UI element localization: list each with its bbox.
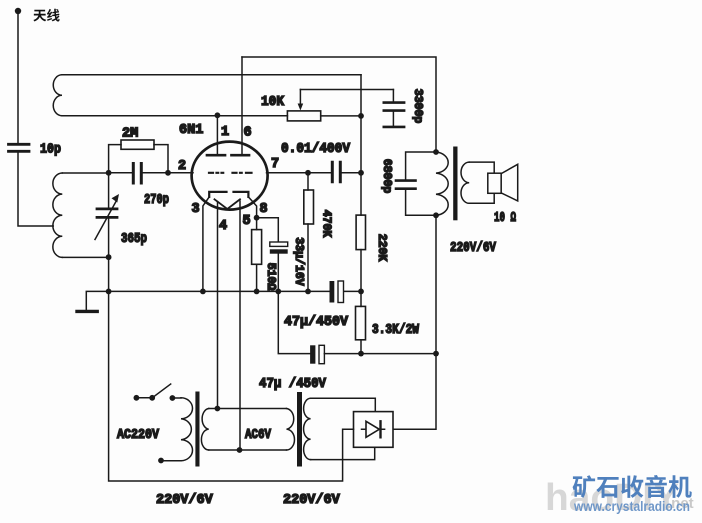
wire cathode pin 8 lead [248,197,256,218]
wire ground bus [109,290,361,292]
wire plate pin 6 lead [241,57,243,154]
transformer T-out secondary [461,162,469,203]
wire diode left to bottom rail [109,291,354,481]
svg-text:270p: 270p [144,193,169,208]
pot wiper arrow [299,90,301,106]
ground symbol [86,291,108,310]
capacitor 33u/16V [257,218,279,242]
svg-text:1: 1 [221,125,229,140]
svg-text:3300p: 3300p [411,89,424,124]
wire pot right lead [321,115,361,117]
svg-text:6N1: 6N1 [179,123,203,138]
svg-text:47μ/450V: 47μ/450V [284,315,349,330]
wire cathode pin 3 lead [203,197,209,292]
resistor 470K [307,173,309,190]
capacitor 6800p [406,152,436,215]
label 天线 (antenna) [33,10,46,22]
wire wiper to 3300p [300,89,393,91]
wire 6V link top [209,408,287,410]
tube anode plates [207,154,249,157]
svg-text:220V/6V: 220V/6V [156,493,214,508]
inductor L1 bottom lead wire [62,115,287,117]
svg-text:365p: 365p [121,232,147,247]
inductor L2 tuning coil [62,173,108,257]
svg-text:510Ω: 510Ω [264,263,277,291]
svg-text:10p: 10p [40,143,61,158]
potentiometer 10K body [287,111,320,121]
svg-text:7: 7 [271,157,279,172]
capacitor 3300p [392,90,394,102]
svg-text:220K: 220K [375,234,388,262]
svg-text:6800p: 6800p [380,159,393,194]
transformer T1 core [195,392,199,467]
vacuum tube U1 6N1 envelope [192,142,268,210]
wire tank bottom to ground bus [108,257,110,291]
capacitor C 47u/450V second [278,291,310,353]
svg-text:33μ/16V: 33μ/16V [292,237,305,285]
capacitor C 47u/450V first [330,281,335,303]
transformer T1 secondary [201,409,208,451]
watermark 矿石收音机 blue [573,475,596,498]
wire plate pin 1 lead [216,115,218,154]
transformer T1 primary [172,397,181,399]
node pin8 junction [254,215,260,221]
antenna terminal node [15,8,21,14]
tube heater filament [215,199,241,209]
node tank bottom [106,254,112,260]
wire grid pin 7 [267,172,309,174]
svg-text:4: 4 [219,219,227,234]
svg-text:0.01/400V: 0.01/400V [281,142,351,157]
transformer T-out primary [436,152,448,215]
wire top line to output transformer [242,57,436,152]
svg-text:10 Ω: 10 Ω [494,211,516,226]
resistor 3.3K/2W [356,306,366,339]
svg-text:220V/6V: 220V/6V [450,241,497,256]
wire grid pin 2 [168,172,193,174]
wire antenna down lead [17,11,19,143]
resistor 2M [109,145,121,173]
transformer T2 secondary [304,398,311,459]
tube grid (dashed) [209,172,252,174]
svg-text:3.3K/2W: 3.3K/2W [372,323,420,338]
diode rectifier D1 box [354,412,394,448]
capacitor 270p [109,172,132,174]
svg-text:470K: 470K [320,210,333,238]
svg-text:10K: 10K [261,95,285,110]
svg-text:3: 3 [192,202,200,217]
speaker horn [501,164,518,201]
svg-text:AC220V: AC220V [117,428,160,443]
wire 10p to tap [18,153,53,226]
tube cathode [209,192,248,197]
svg-text:5: 5 [243,214,251,229]
transformer T-out core [453,147,457,221]
wire 6V link bottom [209,449,287,451]
svg-text:220V/6V: 220V/6V [283,493,341,508]
transformer T2 core [297,392,302,467]
capacitor 10p [9,144,30,151]
inductor L1 top lead wire [62,74,361,76]
svg-text:2M: 2M [122,127,138,142]
svg-text:47μ /450V: 47μ /450V [259,377,327,392]
wire rail B down [393,215,436,429]
wire heater pin 5 lead [239,201,241,450]
transformer T2 primary [287,409,295,451]
svg-text:6: 6 [244,126,252,141]
speaker driver [488,173,501,193]
variable capacitor 365p [108,173,110,208]
capacitor 0.01/400V [308,172,331,174]
svg-text:2: 2 [178,159,186,174]
resistor 510 ohm [256,218,258,230]
diode symbol [362,428,385,430]
wire rail A [360,75,362,354]
resistor 220K [356,215,365,250]
svg-text:www.crystalradio.cn: www.crystalradio.cn [573,498,690,514]
switch S1 [134,395,140,401]
inductor L1 turns [53,75,62,116]
svg-text:AC6V: AC6V [245,428,272,443]
wire heater pin 4 lead [217,202,219,409]
node grid junction [106,170,112,176]
svg-text:8: 8 [260,202,268,217]
